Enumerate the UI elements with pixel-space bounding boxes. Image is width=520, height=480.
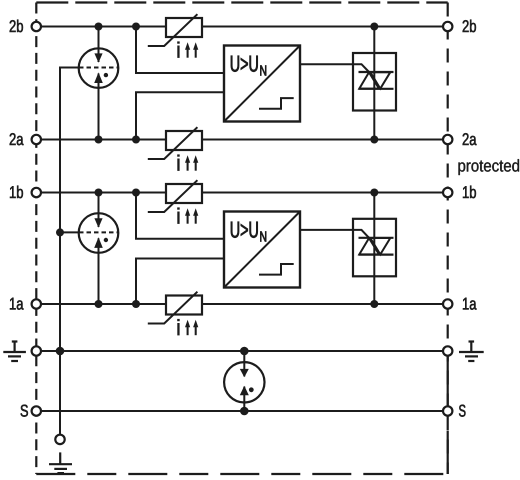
wire GDT mid-electrode bus x=60 [60, 68, 80, 437]
wire line 1a [36, 303, 447, 305]
label S right [459, 405, 465, 417]
suppressor diode D2 channel 1 [300, 193, 396, 305]
label 2b left [10, 20, 23, 32]
terminal 1a left [32, 299, 41, 308]
wire 2a to trigger U1 lower input [136, 92, 224, 139]
terminal 1a right [443, 299, 452, 308]
terminal 2b right [443, 22, 452, 31]
wire 1b to trigger U2 upper input [136, 193, 224, 239]
terminal S right [443, 406, 452, 415]
terminal 2a right [443, 135, 452, 144]
enclosure dashed border bottom [36, 473, 447, 475]
wire right border solid segment between earth and S terminals [447, 351, 449, 411]
enclosure dashed border top [36, 1, 447, 3]
varistor RV4 on line 1a [148, 292, 202, 336]
trigger circuit U2 (U>UN) channel 1 [224, 212, 300, 288]
label 2a right [463, 133, 477, 145]
label 1a left [10, 298, 24, 310]
varistor RV2 on line 2a [148, 127, 202, 171]
wire line 2b [36, 26, 447, 28]
ground symbol internal bottom [49, 452, 72, 473]
junction dot GDT bus at F2 mid electrode [56, 228, 64, 236]
ground symbol left outside [3, 342, 26, 362]
wire 2b to trigger U1 upper input [136, 27, 224, 74]
terminal 1b right [443, 188, 452, 197]
terminal 2a left [32, 135, 41, 144]
junction dots line 1b [95, 189, 379, 197]
junction dots line 2b [95, 23, 379, 31]
enclosure dashed border left [35, 3, 37, 475]
wire S line [36, 410, 447, 412]
junction dots line 2a [95, 136, 379, 144]
terminal internal earth bottom [55, 435, 64, 444]
wire GDT2 mid-electrode to bus [60, 231, 80, 233]
wire line 1b [36, 192, 447, 194]
label 2a left [10, 133, 24, 145]
wire 1a to trigger U2 lower input [136, 259, 224, 305]
terminal earth right [443, 346, 452, 355]
junction dot S line [240, 407, 249, 416]
trigger circuit U1 (U>UN) channel 2 [224, 46, 300, 122]
label 1a right [463, 298, 477, 310]
ground symbol right outside [459, 342, 484, 362]
gas discharge tube F1 (3-electrode) channel 2 [79, 27, 119, 140]
enclosure dashed border right [447, 3, 449, 475]
wire right border solid segment above bottom corner [447, 431, 449, 474]
suppressor diode D1 channel 2 [300, 27, 396, 140]
gas discharge tube F3 (2-electrode) earth to S [224, 351, 264, 411]
terminal 2b left [32, 22, 41, 31]
wire line 2a [36, 139, 447, 141]
label S left [21, 405, 28, 417]
varistor RV3 on line 1b [148, 180, 202, 224]
label 2b right [463, 20, 476, 32]
terminal 1b left [32, 188, 41, 197]
gas discharge tube F2 (3-electrode) channel 1 [79, 193, 119, 305]
junction dots earth line [56, 347, 249, 356]
label protected [458, 159, 519, 175]
junction dots line 1a [95, 300, 379, 308]
wire earth line [36, 350, 447, 352]
varistor RV1 on line 2b [148, 14, 202, 58]
label 1b right [463, 186, 476, 198]
terminal S left [32, 406, 41, 415]
terminal earth left [32, 346, 41, 355]
label 1b left [10, 186, 23, 198]
